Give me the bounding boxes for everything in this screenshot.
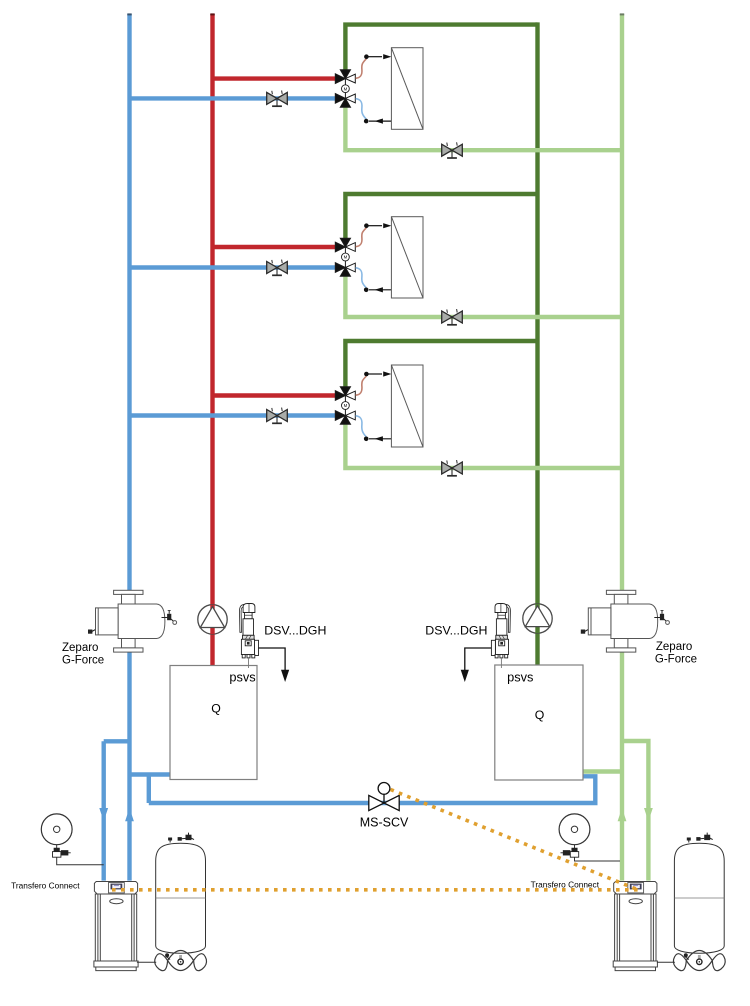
unit 2 hot tapping dot [364, 223, 369, 228]
unit 3 hot branch (red) [213, 393, 337, 397]
heat exchanger HX3 [391, 365, 423, 447]
unit 3 cold tapping dot [364, 437, 369, 442]
expansion vessel (left) bottom valve [165, 953, 183, 964]
valve actuator M [342, 85, 350, 93]
red hot supply riser [210, 14, 214, 666]
blue pressurisation line [149, 776, 596, 803]
svg-text:Zeparo: Zeparo [656, 641, 692, 653]
svg-text:Zeparo: Zeparo [62, 642, 98, 654]
red riser top cap [210, 13, 214, 15]
blue branch to left expansion line [104, 739, 130, 743]
left expansion down pipe [101, 741, 105, 880]
pump P2 on dark green riser [523, 604, 552, 633]
bus line MS-SCV to right Transfero (dotted) [391, 790, 637, 890]
svg-text:Q: Q [535, 708, 545, 722]
valve actuator M [342, 253, 350, 261]
svg-text:Transfero Connect: Transfero Connect [11, 881, 80, 891]
left safety valve connection line [248, 658, 250, 668]
3-way valve actuator stem [344, 79, 346, 99]
unit 3 cold branch (blue) [130, 413, 337, 417]
safety valve DSV...DGH (right) [491, 604, 510, 658]
light green return riser [620, 14, 624, 881]
unit 2 sensor tube hot [356, 228, 367, 247]
unit 1 hot tapping dot [364, 54, 369, 59]
safety valve DSV...DGH (left) [240, 604, 259, 658]
blue riser top cap [127, 13, 131, 15]
svg-text:M: M [344, 255, 348, 260]
blue boiler return to left Q box [130, 772, 172, 776]
3-way mixing valve (supply) [335, 238, 355, 252]
light green return from right Q box [583, 769, 622, 773]
unit 1 cold branch (blue) [130, 96, 337, 100]
left Zeparo G-Force separator [88, 590, 177, 652]
3-way valve actuator stem [344, 396, 346, 416]
pump P1 on red riser [198, 605, 227, 634]
Transfero Connect pressurisation unit (right) control panel [628, 883, 644, 893]
3-way mixing valve (supply) [335, 70, 355, 84]
up arrow on blue riser bottom [125, 808, 134, 821]
Transfero Connect pressurisation unit (left) control panel [109, 883, 125, 893]
up arrow on light green riser bottom [618, 808, 627, 821]
expansion vessel (left) coil stand [155, 951, 207, 971]
3-way mixing valve (supply) [335, 387, 355, 401]
pressure gauge (right) impulse line [575, 857, 621, 861]
expansion vessel (right) coil stand [673, 951, 725, 971]
3-way valve actuator stem [344, 247, 346, 268]
unit 1 cold flow line out of exchanger [369, 119, 391, 124]
unit 2 cold flow line out of exchanger [369, 287, 391, 292]
3-way mixing valve (return) [335, 263, 355, 277]
shut-off valve on unit 2 blue branch [267, 260, 288, 276]
3-way mixing valve (return) [335, 94, 355, 108]
unit 2 supply header (dark green) [345, 194, 537, 239]
expansion vessel (right) [674, 843, 724, 953]
down arrow on left expansion pipe [99, 808, 108, 821]
svg-text:M: M [344, 86, 348, 91]
svg-text:DSV...DGH: DSV...DGH [425, 623, 487, 637]
pressure gauge (left) shut-off fitting [53, 845, 71, 857]
pressure gauge (left) [41, 814, 72, 845]
shut-off valve on unit 1 blue branch [267, 91, 288, 107]
right Zeparo G-Force separator [581, 590, 670, 652]
unit 1 return drop (light green) [345, 106, 622, 150]
expansion vessel (left) [156, 843, 206, 953]
left vessel connection pipe [137, 961, 156, 963]
light green branch to right expansion line [622, 741, 648, 881]
unit 3 sensor tube hot [356, 376, 367, 395]
pressure gauge (right) shut-off fitting [561, 845, 579, 857]
svg-text:MS-SCV: MS-SCV [360, 816, 409, 830]
unit 1 sensor tube cold [356, 99, 367, 119]
shut-off valve on unit 3 blue branch [267, 408, 288, 424]
unit 3 sensor tube cold [356, 416, 367, 437]
unit 3 hot flow line into exchanger [368, 371, 391, 376]
shut-off valve on unit 3 return branch [442, 460, 463, 476]
Transfero Connect pressurisation unit (left) [94, 882, 138, 971]
unit 1 supply header (dark green) [345, 25, 537, 71]
heat exchanger HX1 [391, 48, 423, 130]
Transfero Connect pressurisation unit (right) [613, 882, 657, 971]
light green riser top cap [620, 13, 624, 15]
svg-text:DSV...DGH: DSV...DGH [264, 623, 326, 637]
boiler Q (left) [170, 666, 257, 780]
boiler Q (right) [495, 665, 583, 780]
shut-off valve on unit 2 return branch [442, 309, 463, 325]
svg-text:G-Force: G-Force [655, 653, 697, 665]
down arrow on right expansion pipe [644, 808, 653, 821]
svg-text:psvs: psvs [507, 670, 533, 685]
unit 3 return drop (light green) [345, 424, 622, 469]
right safety valve connection line [500, 658, 502, 668]
unit 2 hot branch (red) [213, 245, 337, 249]
unit 2 hot flow line into exchanger [368, 223, 391, 228]
svg-text:G-Force: G-Force [62, 655, 104, 667]
unit 1 cold tapping dot [364, 119, 369, 124]
dark green supply riser [535, 22, 539, 665]
unit 3 hot tapping dot [364, 372, 369, 377]
unit 1 hot flow line into exchanger [368, 54, 391, 59]
expansion vessel (right) bottom valve [684, 953, 702, 964]
blue drop to pressurisation line (left) [147, 775, 151, 804]
unit 3 cold flow line out of exchanger [369, 436, 391, 441]
pressure gauge (right) [559, 814, 590, 845]
expansion vessel (right) top fittings [687, 833, 712, 843]
unit 1 hot branch (red) [213, 76, 337, 80]
pressure gauge (left) impulse line [57, 857, 104, 865]
left safety valve discharge arrow [259, 648, 290, 682]
right safety valve discharge arrow [461, 648, 492, 682]
svg-text:Q: Q [211, 702, 221, 716]
unit 1 sensor tube hot [356, 59, 367, 79]
heat exchanger HX2 [391, 217, 423, 298]
right vessel connection pipe [657, 961, 675, 963]
valve actuator M [342, 402, 350, 410]
unit 2 return drop (light green) [345, 276, 622, 318]
make-up valve MS-SCV [369, 783, 399, 811]
svg-text:psvs: psvs [229, 670, 255, 685]
unit 2 cold branch (blue) [130, 265, 337, 269]
shut-off valve on unit 1 return branch [442, 142, 463, 158]
3-way mixing valve (return) [335, 411, 355, 425]
unit 2 sensor tube cold [356, 268, 367, 288]
blue cold-water riser [127, 14, 131, 881]
svg-text:M: M [344, 403, 348, 408]
expansion vessel (left) top fittings [169, 833, 194, 843]
unit 2 cold tapping dot [364, 288, 369, 293]
unit 3 supply header (dark green) [345, 341, 537, 388]
bus line between Transfero units (dotted) [112, 888, 640, 892]
svg-text:Transfero Connect: Transfero Connect [531, 879, 600, 889]
